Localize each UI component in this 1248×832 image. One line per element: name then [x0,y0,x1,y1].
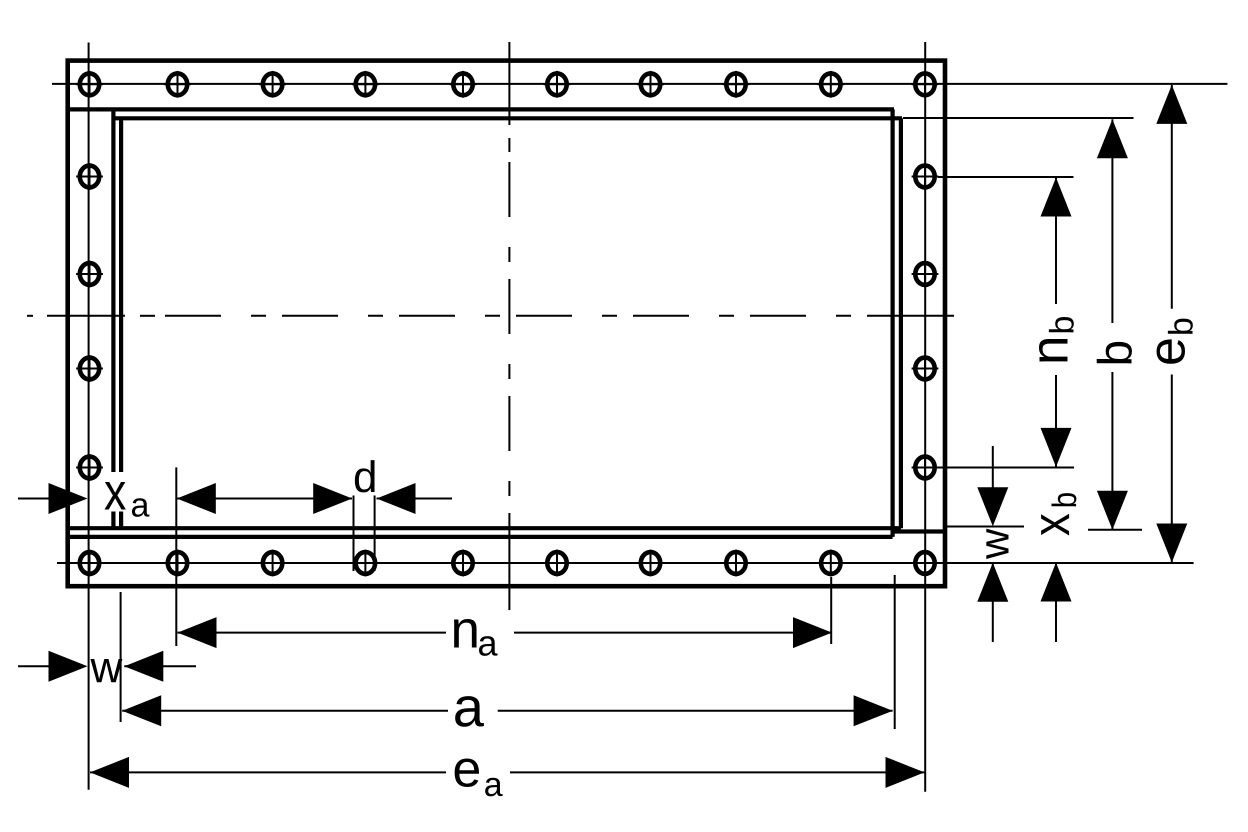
top bolt row center line [52,83,1227,85]
label x_b [1041,493,1076,535]
dimension x_a arrow left [18,498,50,500]
extension line right bolt 5 [938,467,1074,469]
label e_b [1157,319,1193,364]
dimension x_b arrow below [1041,563,1072,602]
label d [355,460,375,492]
dimension e_b [1156,85,1187,124]
bolt hole bottom row 1 [76,550,103,577]
bolt hole right column 5 [912,454,939,481]
bolt hole top row 3 [259,71,286,98]
bolt hole top row 10 [912,71,939,98]
extension line bolt column 2 [175,467,177,646]
extension line d right [374,496,376,572]
bolt hole bottom row 9 [817,550,844,577]
bolt hole top row 7 [637,71,664,98]
bolt hole left column 2 [76,163,103,190]
left bolt column center line [88,43,90,790]
dimension e_a [90,757,129,788]
label e_a [455,759,479,787]
bolt hole right column 2 [912,163,939,190]
bolt hole top row 1 [76,71,103,98]
horizontal center line [27,315,954,317]
bottom bolt row center line [57,562,1194,564]
extension line w right [947,526,1024,528]
extension line duct top edge right [903,117,1134,119]
duct wall top line [113,116,902,120]
dimension x_a arrow right / d arrow left shared shaft [177,498,352,500]
flange fold line left lower segment [111,512,115,529]
label w right [986,529,1008,559]
dimension a [122,695,161,726]
flange fold line left upper segment [111,109,115,472]
flange fold line right [890,109,894,537]
bolt hole top row 2 [164,71,191,98]
flange inner edge top line [70,107,894,111]
duct wall left lower segment [119,512,123,529]
dimension w right arrow below [977,563,1008,602]
bolt hole top row 9 [817,71,844,98]
bolt hole left column 5 [76,454,103,481]
label x_a [105,482,126,509]
bolt hole bottom row 5 [450,550,477,577]
label w left [90,659,122,682]
flange inner edge bottom line [70,535,893,539]
dimension b [1097,119,1128,158]
bolt hole top row 8 [723,71,750,98]
outer frame [68,61,945,587]
label n_a [454,619,477,648]
bolt hole bottom row 3 [259,550,286,577]
right bolt column center line [924,42,926,792]
dimension d arrow right [377,483,416,514]
bolt hole top row 5 [450,71,477,98]
vertical center line [508,42,510,610]
dimension w left [18,665,50,667]
dimension n_b [1041,178,1072,217]
dimension n_a [178,617,217,648]
bolt hole bottom row 4 [352,550,379,577]
extension line d left [353,496,355,572]
bolt hole bottom row 7 [637,550,664,577]
flange fold stub bottom-right [893,529,944,533]
extension line duct right edge [894,575,896,729]
label n_b [1039,317,1074,361]
bolt hole bottom row 10 [912,550,939,577]
bolt hole right column 3 [912,261,939,288]
bolt hole top row 4 [352,71,379,98]
bolt hole bottom row 6 [544,550,571,577]
extension line right bolt 2 [938,176,1074,178]
dimension w right arrow above [992,446,994,488]
extension line bolt column 9 [830,577,832,644]
bolt hole bottom row 2 [164,550,191,577]
duct wall right [899,118,903,528]
bolt hole left column 3 [76,261,103,288]
duct wall bottom line [70,526,901,530]
extension line duct bottom edge right [1088,529,1142,531]
bolt hole top row 6 [544,71,571,98]
extension line duct left edge [120,592,122,722]
label b [1097,342,1132,364]
duct wall left upper segment [119,118,123,472]
bolt hole right column 4 [912,355,939,382]
label a [455,696,484,727]
bolt hole left column 4 [76,355,103,382]
bolt hole bottom row 8 [723,550,750,577]
